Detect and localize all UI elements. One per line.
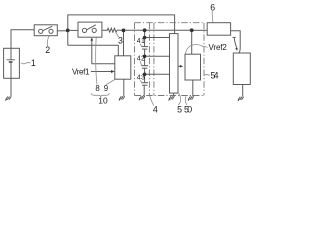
ground for block 9 [119,96,125,100]
wire battery internal top [10,48,12,60]
branch wire E1 [145,37,170,39]
relay control arrowhead [90,38,93,41]
ground for output block [188,96,194,100]
ground for load [238,97,244,101]
svg-text:50: 50 [184,104,192,114]
dash-dot inner edge 4 [148,23,150,96]
ground for cap chain [139,96,145,100]
leader 1 [21,63,31,64]
leader 2 [47,36,49,46]
leader 5 [178,93,180,105]
svg-text:42: 42 [137,56,145,63]
svg-text:5: 5 [177,104,182,114]
wire block5 to ground [173,93,175,96]
leader 4 [150,96,154,106]
leader 42 [140,61,142,65]
svg-text:Vref1: Vref1 [72,68,90,77]
wire battery to ground [10,78,12,96]
svg-text:3: 3 [118,36,123,46]
control block 9 box [115,56,131,79]
svg-text:41: 41 [137,38,145,45]
battery 1 [4,48,20,78]
wire loop top [68,15,175,45]
branch wire E2 [145,55,170,57]
wire node D down to output block [191,30,193,54]
junction node D [190,28,194,32]
wire cap chain to ground [143,85,145,96]
relay switch box [78,22,102,37]
leader 50 [185,96,187,105]
switch 2 contact R [49,29,53,33]
svg-text:6: 6 [210,3,215,13]
svg-text:9: 9 [104,84,108,93]
leader 43 [140,80,142,82]
svg-text:4: 4 [153,104,158,114]
junction node B [122,29,126,33]
block 6 box [207,23,230,36]
wire node D to block 6 [192,29,208,31]
leader 8 [96,38,97,85]
junction cap node 2 [143,55,147,59]
leader 3 [116,33,119,37]
resistor 3 [102,28,117,32]
svg-text:Vref2: Vref2 [209,43,228,52]
relay contact R [92,28,96,32]
regulator block 5 box [170,34,179,94]
wire node B to node C [124,29,145,31]
svg-text:54: 54 [211,71,219,81]
brace 10 [91,93,109,97]
branch wire E3 [145,73,170,75]
arrow block5 to output block [178,65,180,67]
battery long plate [7,59,16,61]
svg-text:8: 8 [95,84,99,93]
leader 41 [140,44,142,47]
capacitor 41 [141,46,148,48]
wire block6 to load [231,31,241,53]
wire block9 bottom to ground [123,79,125,96]
ground for block 5 [169,96,175,100]
svg-text:1: 1 [31,58,36,68]
capacitor 42 [141,65,148,67]
relay blade [87,25,96,30]
leader 6 [211,11,214,22]
wire node B down to pin of block 9 [123,30,125,56]
svg-text:43: 43 [137,75,145,82]
wire switch2 to node A [57,30,67,32]
junction node A [66,29,70,33]
dash-dot enclosure 50 [135,23,205,96]
dash-dot divider [153,23,155,96]
capacitor chain wire [144,30,146,46]
wire load to ground [242,85,244,97]
relay control wire [92,39,115,64]
wire node C to node D [145,29,192,31]
junction cap node 1 [143,36,147,40]
ground for battery [5,97,11,101]
load box 7 [233,53,250,85]
switch 2 box [34,25,57,36]
wire output block to ground [192,80,194,96]
switch 2 blade [43,26,52,30]
Vref1 arrow [91,71,112,73]
leader 9 [106,80,115,85]
wire resistor to node B [117,29,124,31]
switch 2 contact L [39,29,43,33]
output block box [185,54,201,80]
wire battery to switch 2 [11,30,34,49]
wire battery internal bottom [10,62,12,78]
svg-text:10: 10 [98,95,108,105]
flow arrow into load [233,37,237,47]
battery short plate [9,61,13,63]
wire node A branch to pin 8 of block 9 [68,45,119,56]
svg-text:2: 2 [45,45,50,55]
junction cap node 3 [143,73,147,77]
relay contact L [82,28,86,32]
leader 54 [204,74,210,77]
capacitor 43 [141,82,148,84]
wire node A to relay switch [68,29,78,31]
leader Vref2 [185,45,207,54]
junction node C [143,28,147,32]
